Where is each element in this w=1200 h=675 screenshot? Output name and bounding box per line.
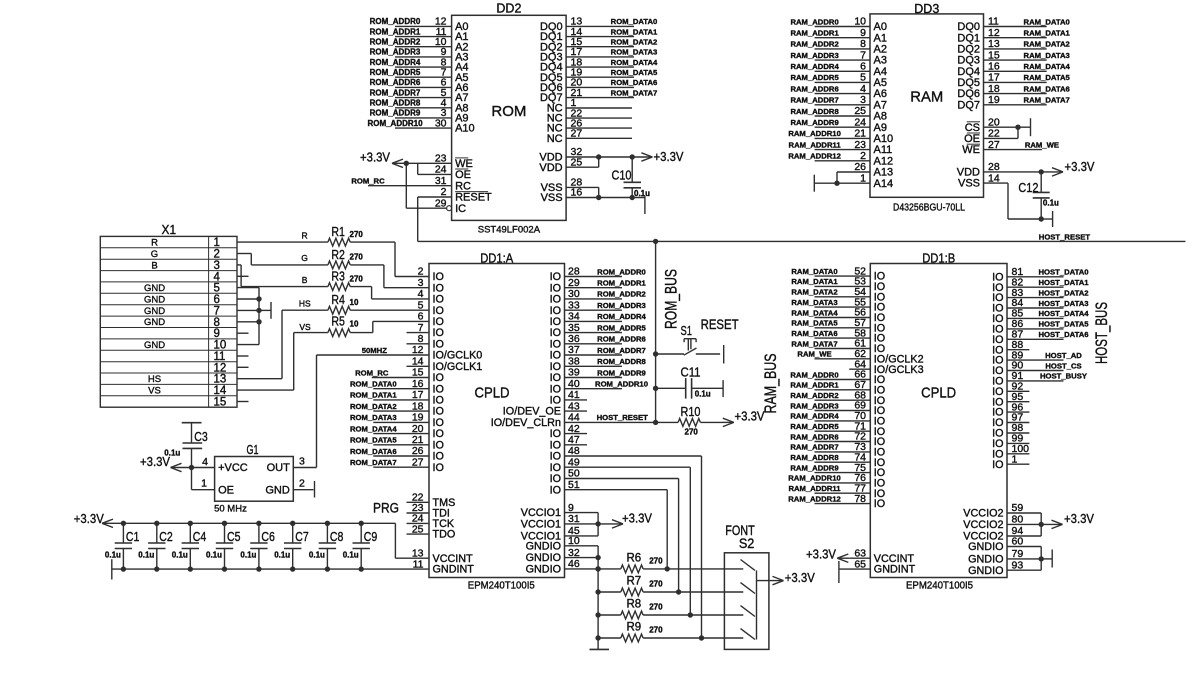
svg-text:270: 270	[350, 230, 364, 239]
svg-text:+3.3V: +3.3V	[1064, 511, 1094, 526]
svg-text:ROM: ROM	[491, 103, 526, 120]
svg-text:A3: A3	[874, 55, 887, 67]
svg-text:IO: IO	[433, 451, 444, 463]
DD1:B pin 98 IO stub wire	[992, 422, 1029, 439]
DD1:A right pin 32 GNDIO	[526, 547, 580, 564]
DD1:A left pin 21 IO	[412, 434, 444, 451]
svg-text:DQ1: DQ1	[957, 32, 980, 44]
svg-text:IO: IO	[550, 271, 561, 283]
svg-text:GND: GND	[265, 485, 290, 497]
DD1:B pin 100 IO stub wire	[992, 443, 1029, 460]
DD1:A right pin 31 VCCIO1	[521, 513, 580, 530]
DD1:B pin 58 IO wire + net label RAM_DATA6	[791, 327, 885, 344]
svg-text:R3: R3	[331, 269, 345, 284]
DD2 RESET pin wire down to HOST_RESET rail	[418, 197, 452, 241]
svg-text:IO: IO	[433, 372, 444, 384]
svg-text:VSS: VSS	[541, 192, 563, 204]
wire HOST_RESET rail across page	[418, 240, 1186, 242]
DD1:A left pin 23 TDI	[412, 502, 450, 519]
DD3 pin 21 A10 wire + net label RAM_ADDR10	[788, 128, 893, 145]
DD3 pin 16 DQ4 wire + net label RAM_DATA4	[957, 61, 1070, 78]
DD3 pin 6 A4 wire + net label RAM_ADDR4	[790, 61, 887, 78]
svg-text:IO: IO	[550, 473, 561, 485]
X1 pin 4 stub wire	[237, 275, 249, 277]
svg-text:RAM_ADDR10: RAM_ADDR10	[788, 129, 841, 138]
svg-text:17: 17	[988, 72, 1000, 84]
svg-text:RAM_ADDR0: RAM_ADDR0	[790, 17, 838, 26]
svg-text:RAM_ADDR11: RAM_ADDR11	[789, 140, 842, 149]
DD1:A right pin 38 IO	[550, 356, 580, 373]
resistor R10 270 to +3.3V	[656, 404, 765, 437]
svg-text:ROM_ADDR7: ROM_ADDR7	[597, 346, 646, 355]
svg-text:GNDINT: GNDINT	[874, 564, 916, 576]
DD1:A pin 35 wire + net label ROM_ADDR5	[565, 323, 647, 332]
svg-text:14: 14	[988, 172, 1000, 184]
DD1:A left pin 27 IO	[412, 456, 444, 473]
svg-text:+3.3V: +3.3V	[74, 511, 104, 526]
svg-text:OE: OE	[455, 169, 471, 181]
svg-text:C5: C5	[227, 529, 241, 544]
svg-text:25: 25	[571, 156, 583, 168]
svg-text:IO: IO	[433, 294, 444, 306]
svg-text:ROM_DATA5: ROM_DATA5	[350, 436, 397, 445]
svg-text:GND: GND	[144, 340, 165, 351]
svg-text:0.1u: 0.1u	[309, 551, 325, 560]
svg-text:RAM_DATA6: RAM_DATA6	[1024, 84, 1070, 93]
DD1:B pin 91 IO wire + net label HOST_BUSY	[992, 370, 1087, 387]
DD1:A pin 36 wire + net label ROM_ADDR6	[565, 335, 646, 344]
DD1:A right pin 49 IO	[550, 456, 580, 473]
DD3 pin 20 CS wire to bar	[965, 116, 1031, 136]
svg-text:15: 15	[988, 49, 1000, 61]
DD1:B pin 99 IO stub wire	[992, 433, 1029, 450]
svg-text:IO: IO	[550, 395, 561, 407]
DD1:B pin 52 IO wire + net label RAM_DATA0	[791, 265, 885, 282]
X1 pin 12 stub wire	[237, 366, 249, 368]
DD1:A pin 41 stub wire	[565, 399, 588, 401]
svg-text:RAM_WE: RAM_WE	[797, 350, 831, 359]
DD2 pin 2 RESET name	[441, 186, 492, 203]
svg-text:ROM_ADDR10: ROM_ADDR10	[367, 119, 423, 128]
svg-text:S1: S1	[681, 323, 693, 338]
DD2 pin 15 DQ2 wire + net label ROM_DATA2	[540, 36, 657, 53]
DD1:A pin 47 stub wire	[565, 444, 588, 446]
DD1:A pin 20 wire + net label ROM_DATA4	[350, 424, 429, 433]
capacitor C5 0.1u	[206, 521, 241, 572]
net label PRG near JTAG pins	[373, 500, 399, 515]
DD1:B pin 71 IO wire + net label RAM_ADDR5	[790, 420, 885, 437]
svg-text:VSS: VSS	[958, 178, 980, 190]
X1 pin 9 stub wire	[237, 332, 249, 334]
DD1:A right pin 33 IO	[550, 299, 580, 316]
svg-text:VCCIO1: VCCIO1	[521, 507, 561, 519]
DD1:A right pin 45 VCCIO1	[521, 525, 580, 542]
ground symbol below R9	[590, 648, 610, 650]
svg-text:RAM_DATA1: RAM_DATA1	[791, 277, 838, 286]
DD2 pin 8 A4 wire + net label ROM_ADDR4	[370, 56, 469, 73]
svg-text:A6: A6	[874, 88, 887, 100]
svg-text:GNDIO: GNDIO	[526, 540, 561, 552]
DD2 pin 28 VSS wire	[541, 177, 599, 198]
svg-text:DQ7: DQ7	[957, 99, 980, 111]
svg-text:+3.3V: +3.3V	[806, 546, 836, 561]
DD1:B pin 95 IO stub wire	[992, 391, 1029, 408]
svg-text:S2: S2	[739, 536, 755, 551]
G1 pin 3 OUT wire up to DD1:A pin 12	[293, 355, 316, 468]
DD1:A pin 42 stub wire	[565, 433, 588, 435]
DD1:A pin 14 stub wire	[407, 365, 430, 367]
svg-text:C2: C2	[159, 529, 173, 544]
DD3 pin 8 A2 wire + net label RAM_ADDR2	[790, 38, 887, 55]
DD1:B pin 66 IO wire + net label RAM_ADDR0	[790, 369, 885, 386]
svg-text:RAM_DATA4: RAM_DATA4	[791, 308, 838, 317]
DD1:B VCCIO2 pins 59/80/94 tied to +3.3V	[963, 502, 1094, 542]
svg-text:RAM_DATA7: RAM_DATA7	[1024, 96, 1070, 105]
svg-text:RAM_ADDR10: RAM_ADDR10	[788, 474, 841, 483]
svg-text:A2: A2	[874, 44, 887, 56]
svg-text:HS: HS	[148, 374, 161, 385]
svg-text:HOST_BUS: HOST_BUS	[1092, 302, 1111, 364]
DD3 pin 17 DQ5 wire + net label RAM_DATA5	[957, 72, 1070, 89]
DD1:A left pin 3 IO	[418, 277, 444, 294]
svg-text:ROM_DATA3: ROM_DATA3	[611, 48, 658, 57]
svg-text:C12: C12	[1018, 180, 1038, 195]
svg-text:+3.3V: +3.3V	[735, 409, 765, 424]
svg-text:HOST_DATA4: HOST_DATA4	[1038, 309, 1089, 318]
svg-text:270: 270	[649, 602, 663, 611]
DD2 pin 11 A1 wire + net label ROM_ADDR1	[370, 26, 469, 43]
capacitor C2 0.1u	[138, 521, 173, 572]
DD1:A right pin 44 IO/DEV_CLRn	[491, 412, 580, 429]
svg-text:RAM_ADDR0: RAM_ADDR0	[790, 370, 838, 379]
DD1:A right pin 37 IO	[550, 344, 580, 361]
DD1:A left pin 13 VCCINT	[412, 547, 473, 564]
svg-text:C9: C9	[364, 529, 378, 544]
DD1:A right pin 39 IO	[550, 367, 580, 384]
svg-text:ROM_DATA7: ROM_DATA7	[611, 88, 658, 97]
DD1:A left pin 17 IO	[412, 389, 444, 406]
DD1:B pin 64 IO/GCLK3 stub wire	[849, 358, 923, 375]
svg-text:RAM_ADDR2: RAM_ADDR2	[790, 40, 838, 49]
DD2 pin 3 A9 wire + net label ROM_ADDR9	[370, 107, 469, 124]
svg-text:ROM_DATA6: ROM_DATA6	[611, 78, 658, 87]
svg-text:IO: IO	[433, 338, 444, 350]
svg-text:ROM_ADDR3: ROM_ADDR3	[370, 48, 421, 57]
svg-text:A7: A7	[874, 99, 887, 111]
DD1:B pin 82 IO wire + net label HOST_DATA1	[992, 276, 1089, 293]
svg-text:ROM_ADDR4: ROM_ADDR4	[370, 58, 421, 67]
DD1:A pin 33 wire + net label ROM_ADDR3	[565, 301, 646, 310]
svg-text:ROM_DATA1: ROM_DATA1	[611, 27, 658, 36]
svg-text:IO: IO	[433, 395, 444, 407]
DD1:B pin 90 IO wire + net label HOST_CS	[992, 360, 1082, 377]
svg-text:0.1u: 0.1u	[105, 551, 121, 560]
DD1:A left pin 25 TDO	[412, 523, 455, 540]
svg-text:IO: IO	[433, 383, 444, 395]
DD1:A left pin 4 IO	[418, 288, 444, 305]
bus label ROM_BUS	[662, 269, 681, 329]
svg-text:ROM_ADDR5: ROM_ADDR5	[597, 323, 646, 332]
DD1:B pin 55 IO wire + net label RAM_DATA3	[791, 296, 885, 313]
svg-text:ROM_BUS: ROM_BUS	[662, 269, 681, 329]
DD2 pin 22 NC stub	[547, 107, 632, 124]
svg-text:14: 14	[214, 385, 227, 397]
svg-text:RAM_DATA4: RAM_DATA4	[1024, 62, 1071, 71]
svg-text:IO/DEV_CLRn: IO/DEV_CLRn	[491, 417, 561, 429]
DD1:A left pin 12 IO/GCLK0	[412, 344, 483, 361]
G1 pin 2 GND wire to ground bar	[293, 477, 314, 497]
svg-text:PRG: PRG	[373, 500, 399, 515]
svg-text:ROM_DATA5: ROM_DATA5	[611, 68, 658, 77]
svg-text:GNDINT: GNDINT	[433, 564, 475, 576]
DD1:A pin 39 wire + net label ROM_ADDR9	[565, 368, 646, 377]
svg-text:6: 6	[214, 294, 220, 306]
svg-text:C6: C6	[261, 529, 275, 544]
connector X1 table with pins 1-15	[100, 223, 237, 408]
svg-text:IO: IO	[433, 271, 444, 283]
wire net HS from X1 pin 13	[237, 298, 328, 378]
wire from rail down through S1/C11/R10 junctions	[653, 241, 658, 425]
DD3 pin 7 A3 wire + net label RAM_ADDR3	[790, 49, 887, 66]
svg-text:+3.3V: +3.3V	[360, 149, 390, 164]
svg-text:VDD: VDD	[539, 162, 562, 174]
svg-text:13: 13	[214, 374, 227, 386]
svg-text:+VCC: +VCC	[218, 462, 248, 474]
bus label HOST_BUS	[1092, 302, 1111, 364]
svg-text:0.1u: 0.1u	[206, 551, 222, 560]
svg-text:ROM_DATA7: ROM_DATA7	[350, 458, 397, 467]
svg-text:RAM_ADDR12: RAM_ADDR12	[788, 494, 841, 503]
DD1:A left pin 11 GNDINT	[413, 558, 475, 575]
svg-text:4: 4	[214, 271, 221, 283]
svg-text:ROM_ADDR5: ROM_ADDR5	[370, 68, 421, 77]
svg-text:0.1u: 0.1u	[274, 551, 290, 560]
svg-text:270: 270	[350, 253, 364, 262]
bus label RAM_BUS	[761, 354, 780, 414]
DD3 pin 23 A11 wire + net label RAM_ADDR11	[789, 139, 893, 156]
svg-text:GND: GND	[144, 294, 165, 305]
DD1:A pin 44 wire + net label HOST_RESET	[565, 413, 656, 422]
svg-text:RAM_ADDR3: RAM_ADDR3	[790, 51, 838, 60]
svg-text:HOST_CS: HOST_CS	[1045, 361, 1081, 370]
svg-text:9: 9	[214, 328, 220, 340]
svg-text:IO/GCLK0: IO/GCLK0	[433, 350, 483, 362]
DD2 WE pin wire to +3.3V with junction	[360, 149, 452, 167]
svg-text:0.1u: 0.1u	[1043, 199, 1059, 208]
wire R2 to DD1:A pin 3	[350, 265, 429, 288]
svg-text:OUT: OUT	[267, 462, 291, 474]
DD2 pin 4 A8 wire + net label ROM_ADDR8	[370, 97, 469, 114]
svg-text:+3.3V: +3.3V	[785, 570, 815, 585]
DD2 pin 9 A3 wire + net label ROM_ADDR3	[370, 46, 469, 63]
capacitor C4 0.1u	[172, 521, 207, 572]
DD1:B pin 72 IO wire + net label RAM_ADDR6	[790, 431, 885, 448]
svg-text:A9: A9	[874, 122, 887, 134]
svg-text:0.1u: 0.1u	[240, 551, 256, 560]
DD1:B pin 69 IO wire + net label RAM_ADDR3	[790, 400, 885, 417]
DD1:B pin 65 GNDINT wire to ground bar	[839, 558, 916, 583]
DD1:B pin 97 IO stub wire	[992, 412, 1029, 429]
DD3 pin 27 WE wire + net label RAM_WE	[962, 139, 1059, 156]
svg-text:RAM_WE: RAM_WE	[1025, 141, 1059, 150]
svg-text:5: 5	[214, 283, 220, 295]
DD2 pin 21 DQ7 wire + net label ROM_DATA7	[540, 87, 657, 104]
svg-text:HOST_DATA2: HOST_DATA2	[1038, 288, 1088, 297]
DD1:A right pin 10 GNDIO	[526, 535, 580, 552]
wire R3 to DD1:A pin 4	[350, 287, 429, 299]
DD1:A pin 16 wire + net label ROM_DATA0	[350, 380, 429, 389]
svg-text:D43256BGU-70LL: D43256BGU-70LL	[893, 202, 965, 213]
DD1:A right pin 28 IO	[550, 266, 580, 283]
svg-text:ROM_ADDR1: ROM_ADDR1	[597, 279, 646, 288]
svg-text:11: 11	[988, 16, 999, 28]
svg-text:RAM: RAM	[910, 89, 943, 106]
DD3 A14 pin wire to ground bar	[814, 175, 870, 192]
svg-text:GNDIO: GNDIO	[968, 565, 1003, 577]
svg-text:B: B	[302, 275, 308, 285]
svg-text:IO: IO	[433, 406, 444, 418]
svg-text:X1: X1	[162, 223, 177, 237]
resistor R6 270	[595, 552, 724, 572]
svg-text:ROM_ADDR9: ROM_ADDR9	[597, 368, 646, 377]
svg-text:RAM_DATA7: RAM_DATA7	[791, 339, 837, 348]
DD1:A right pin 41 IO	[550, 389, 580, 406]
svg-text:RAM_ADDR5: RAM_ADDR5	[790, 422, 839, 431]
wire net G from X1 pin 2	[237, 253, 328, 265]
svg-text:DD2: DD2	[496, 1, 521, 15]
capacitor C8 0.1u	[309, 521, 344, 572]
svg-text:RAM_ADDR9: RAM_ADDR9	[790, 463, 838, 472]
DD1:A right pin 51 IO	[550, 479, 580, 496]
DD1:A right pin 46 GNDIO	[526, 558, 580, 575]
svg-text:TDO: TDO	[433, 529, 456, 541]
DD1:A left pin 18 IO	[412, 400, 444, 417]
svg-text:IO: IO	[550, 305, 561, 317]
svg-text:RAM_ADDR6: RAM_ADDR6	[790, 432, 838, 441]
DD1:A pin 51 wire down to switch line	[565, 490, 670, 572]
svg-text:A0: A0	[874, 21, 887, 33]
resistor R9 270	[595, 622, 724, 642]
svg-text:EPM240T100I5: EPM240T100I5	[468, 581, 535, 592]
DD1:A pin 43 stub wire	[565, 410, 588, 412]
svg-text:0.1u: 0.1u	[343, 551, 359, 560]
svg-text:270: 270	[649, 625, 663, 634]
DD1:B pin 53 IO wire + net label RAM_DATA1	[791, 276, 885, 293]
DD1:A pin 49 wire down to switch line	[565, 467, 694, 618]
DD1:A pin 48 wire down to switch line	[565, 456, 705, 641]
svg-text:IC: IC	[455, 203, 466, 215]
DD1:B pin 76 IO wire + net label RAM_ADDR10	[788, 472, 885, 489]
capacitor C7 0.1u	[274, 521, 309, 572]
DD1:A right pin 43 IO/DEV_OE	[503, 400, 580, 417]
svg-text:DD1:B: DD1:B	[922, 251, 955, 266]
svg-text:G: G	[301, 253, 308, 263]
svg-text:27: 27	[988, 139, 1000, 151]
DD1:A left pin 8 IO	[418, 333, 444, 350]
DD1:A GNDIO pins 10/32/46 tied to ground rail	[565, 546, 601, 650]
svg-text:ROM_DATA2: ROM_DATA2	[611, 38, 658, 47]
svg-text:10: 10	[350, 298, 359, 307]
svg-text:IO: IO	[433, 417, 444, 429]
svg-text:+3.3V: +3.3V	[622, 511, 652, 526]
DD2 pin 1 NC stub	[547, 97, 632, 114]
DD1:A left pin 5 IO	[418, 299, 444, 316]
svg-text:ROM_RC: ROM_RC	[355, 368, 389, 377]
svg-text:HOST_BUSY: HOST_BUSY	[1040, 372, 1087, 381]
svg-text:RAM_DATA2: RAM_DATA2	[791, 288, 837, 297]
svg-text:A13: A13	[874, 167, 894, 179]
svg-text:IO: IO	[550, 327, 561, 339]
DD1:A pin 12 wire 50MHZ net	[317, 346, 430, 355]
svg-text:ROM_ADDR9: ROM_ADDR9	[370, 109, 421, 118]
svg-text:GND: GND	[144, 283, 165, 294]
DD3 pin 18 DQ6 wire + net label RAM_DATA6	[957, 83, 1069, 100]
svg-text:ROM_DATA1: ROM_DATA1	[350, 391, 397, 400]
svg-text:R10: R10	[681, 404, 701, 419]
svg-text:RAM_ADDR8: RAM_ADDR8	[790, 107, 839, 116]
DD3 pin 9 A1 wire + net label RAM_ADDR1	[790, 27, 887, 44]
DD1:A right pin 50 IO	[550, 468, 580, 485]
DD2 pin 7 A5 wire + net label ROM_ADDR5	[370, 67, 469, 84]
DD1:A right pin 30 IO	[550, 288, 580, 305]
svg-text:IO: IO	[550, 338, 561, 350]
svg-text:R9: R9	[627, 622, 642, 634]
junction on HOST_RESET rail	[653, 239, 658, 244]
svg-text:RAM_ADDR12: RAM_ADDR12	[788, 152, 841, 161]
DD1:A pin 34 wire + net label ROM_ADDR4	[565, 312, 647, 321]
svg-text:DQ5: DQ5	[957, 77, 980, 89]
DD1:A pin 38 wire + net label ROM_ADDR8	[565, 357, 647, 366]
svg-text:HOST_DATA1: HOST_DATA1	[1038, 278, 1089, 287]
IC DD2 ROM box SST49LF002A	[452, 1, 566, 235]
DD2 pin 6 A6 wire + net label ROM_ADDR6	[370, 77, 469, 94]
DD1:A right pin 35 IO	[550, 322, 580, 339]
DD2 pin 19 DQ5 wire + net label ROM_DATA5	[540, 67, 658, 84]
S2 switch blades and common bus	[724, 560, 756, 640]
DD1:A VCCIO1 pins 9/31/45 tied to +3.3V	[565, 511, 653, 536]
svg-text:B: B	[151, 260, 157, 271]
svg-text:OE: OE	[218, 485, 234, 497]
svg-text:ROM_ADDR7: ROM_ADDR7	[370, 88, 421, 97]
svg-text:IO: IO	[433, 462, 444, 474]
DD2 pin 24 OE name	[435, 164, 471, 181]
svg-text:1: 1	[201, 477, 207, 489]
svg-text:IO: IO	[433, 439, 444, 451]
DD2 IC pin wire with inversion bubble tied to +3.3V	[406, 163, 451, 210]
svg-text:RAM_ADDR1: RAM_ADDR1	[790, 29, 839, 38]
svg-text:GND: GND	[144, 306, 165, 317]
svg-text:R7: R7	[627, 576, 642, 588]
svg-text:3: 3	[299, 456, 305, 468]
wire net R from X1 pin 1	[237, 231, 328, 243]
resistor R2 270	[328, 247, 363, 269]
svg-text:ROM_ADDR0: ROM_ADDR0	[370, 17, 421, 26]
svg-text:50MHZ: 50MHZ	[362, 346, 388, 355]
wire net B from X1 pin 3	[237, 265, 328, 287]
DD3 pin 2 A12 wire + net label RAM_ADDR12	[788, 150, 893, 167]
wire R5 to DD1:A pin 6	[350, 321, 429, 332]
svg-text:12: 12	[214, 362, 227, 374]
svg-text:A1: A1	[874, 32, 887, 44]
DD3 pin 22 OE wire	[964, 127, 1018, 145]
svg-text:ROM_DATA2: ROM_DATA2	[350, 402, 397, 411]
svg-text:OE: OE	[964, 133, 980, 145]
svg-text:13: 13	[988, 38, 1000, 50]
svg-text:11: 11	[214, 351, 226, 363]
svg-text:C11: C11	[681, 365, 701, 380]
svg-text:IO: IO	[550, 428, 561, 440]
DD1:A pin 25 stub wire	[407, 533, 430, 535]
